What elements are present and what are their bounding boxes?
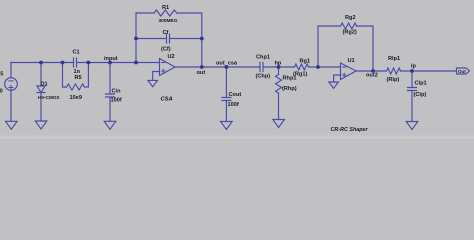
node dot Cf right bbox=[200, 37, 204, 41]
svg-text:100f: 100f bbox=[111, 98, 122, 104]
node dot out bbox=[200, 65, 204, 69]
node dot Rg2 tap bbox=[316, 65, 320, 69]
U2 minus glyph bbox=[162, 62, 165, 64]
wire R5 left rail bbox=[63, 63, 67, 88]
wire output stage2 bbox=[356, 70, 387, 72]
ground V5 bbox=[6, 121, 18, 129]
ground D1 bbox=[35, 121, 47, 129]
capacitor Cin bbox=[106, 94, 115, 97]
svg-text:out_csa: out_csa bbox=[216, 61, 238, 67]
wire Rg1 to U1 bbox=[309, 66, 341, 68]
U1 plus glyph bbox=[343, 73, 346, 76]
wire feedback top right bbox=[177, 13, 202, 67]
svg-text:R1: R1 bbox=[162, 5, 169, 11]
svg-text:Rg2: Rg2 bbox=[345, 15, 356, 21]
wire Clp1 bottom lead bbox=[411, 91, 413, 122]
capacitor C1 bbox=[74, 58, 77, 67]
svg-text:Rg1: Rg1 bbox=[300, 59, 311, 65]
svg-text:(Rlp): (Rlp) bbox=[387, 77, 400, 83]
wire Cin top lead bbox=[109, 63, 111, 95]
svg-text:(Clp): (Clp) bbox=[414, 92, 427, 98]
wire Cf left bbox=[136, 38, 167, 40]
op-amp U1 bbox=[341, 63, 357, 80]
svg-text:CR-RC Shaper: CR-RC Shaper bbox=[331, 127, 369, 133]
wire Rhp1 top lead bbox=[278, 67, 280, 75]
ground Cin bbox=[104, 121, 116, 129]
voltage source V5 bbox=[5, 78, 18, 91]
wire Cout top lead bbox=[225, 67, 227, 98]
wire V5 top lead bbox=[10, 63, 12, 78]
node dot hp bbox=[277, 65, 281, 69]
wire Cout bottom lead bbox=[225, 101, 227, 122]
node dot D1 bbox=[39, 61, 43, 65]
svg-text:D1: D1 bbox=[41, 82, 48, 88]
wire main input (right of C1) bbox=[77, 62, 160, 64]
resistor Rlp1 bbox=[387, 68, 401, 74]
svg-text:V5: V5 bbox=[0, 72, 3, 78]
svg-text:out2: out2 bbox=[366, 73, 378, 79]
wire D1 bottom lead bbox=[40, 93, 42, 122]
wire U2 plus stub bbox=[153, 72, 160, 81]
wire R5 right rail bbox=[85, 63, 89, 88]
svg-text:(Rhp): (Rhp) bbox=[282, 86, 297, 92]
ground U2 bbox=[148, 80, 158, 86]
wire Rlp1 to Out port bbox=[401, 70, 457, 72]
wire U1 plus stub bbox=[334, 75, 341, 82]
ground Clp1 bbox=[406, 122, 418, 130]
wire main input (left of C1) bbox=[11, 62, 74, 64]
ground Rhp1 bbox=[273, 120, 285, 128]
svg-text:100f: 100f bbox=[228, 102, 239, 108]
node dot feedback rail at input bbox=[134, 61, 138, 65]
wire Clp1 top lead bbox=[411, 71, 413, 88]
resistor R1 bbox=[154, 10, 177, 16]
svg-text:input: input bbox=[104, 56, 118, 62]
wire V5 bottom lead bbox=[10, 90, 12, 121]
V5 minus mark bbox=[9, 80, 13, 82]
svg-text:Rlp1: Rlp1 bbox=[388, 56, 400, 62]
svg-text:R5: R5 bbox=[75, 75, 82, 81]
ground Cout bbox=[221, 122, 233, 130]
svg-text:(Cf): (Cf) bbox=[161, 47, 171, 53]
svg-text:30: 30 bbox=[0, 89, 3, 95]
node dot lp bbox=[410, 69, 414, 73]
node dot input bbox=[108, 61, 112, 65]
wire feedback left rail bbox=[136, 13, 154, 63]
op-amp U2 bbox=[160, 59, 176, 76]
resistor R5 bbox=[67, 84, 85, 90]
svg-text:300MEG: 300MEG bbox=[159, 18, 178, 24]
capacitor Cout bbox=[222, 98, 231, 101]
diode D1 bbox=[37, 86, 45, 93]
svg-text:Clp1: Clp1 bbox=[415, 81, 427, 87]
ground U1 bbox=[329, 82, 339, 88]
svg-text:CSA: CSA bbox=[161, 97, 173, 103]
V5 plus mark bbox=[9, 85, 13, 89]
svg-text:hp: hp bbox=[275, 61, 282, 67]
resistor Rg2 bbox=[341, 23, 357, 29]
node dot Cf left bbox=[134, 37, 138, 41]
wire Rg2 left rail bbox=[318, 26, 341, 67]
node dot C1 right bbox=[87, 61, 91, 65]
capacitor Cf bbox=[167, 34, 170, 43]
node dot out2 bbox=[371, 69, 375, 73]
U2 plus glyph bbox=[162, 69, 165, 72]
port Out flag bbox=[457, 68, 470, 74]
wire Chp1 to Rg1 bbox=[263, 66, 295, 68]
svg-text:lp: lp bbox=[411, 64, 417, 70]
svg-text:10e9: 10e9 bbox=[70, 95, 82, 101]
node dot C1 left bbox=[61, 61, 65, 65]
resistor Rg1 bbox=[295, 64, 309, 70]
svg-text:HV-CMOS: HV-CMOS bbox=[38, 95, 59, 100]
svg-text:Cin: Cin bbox=[112, 89, 122, 95]
node dot out_csa bbox=[225, 65, 229, 69]
svg-text:Out: Out bbox=[458, 69, 466, 74]
svg-text:(Chp): (Chp) bbox=[256, 74, 271, 80]
svg-text:Cf: Cf bbox=[163, 30, 169, 36]
svg-text:C1: C1 bbox=[73, 50, 80, 56]
svg-text:Cout: Cout bbox=[229, 92, 242, 98]
svg-text:Chp1: Chp1 bbox=[256, 55, 270, 61]
wire Cin bottom lead bbox=[109, 97, 111, 121]
svg-text:U2: U2 bbox=[168, 54, 175, 60]
svg-text:(Rg2): (Rg2) bbox=[343, 30, 357, 36]
wire D1 top lead bbox=[40, 63, 42, 87]
wire Cf right bbox=[170, 38, 202, 40]
svg-text:U1: U1 bbox=[348, 58, 355, 64]
svg-text:(Rg1): (Rg1) bbox=[293, 72, 307, 78]
resistor Rhp1 bbox=[276, 75, 282, 94]
wire Rg2 right rail bbox=[357, 26, 374, 71]
U1 minus glyph bbox=[343, 66, 346, 68]
wire Rhp1 bottom lead bbox=[278, 93, 280, 119]
capacitor Chp1 bbox=[260, 63, 263, 72]
svg-text:out: out bbox=[197, 70, 206, 76]
capacitor Clp1 bbox=[408, 88, 417, 91]
wire output stage1 bbox=[175, 66, 260, 68]
